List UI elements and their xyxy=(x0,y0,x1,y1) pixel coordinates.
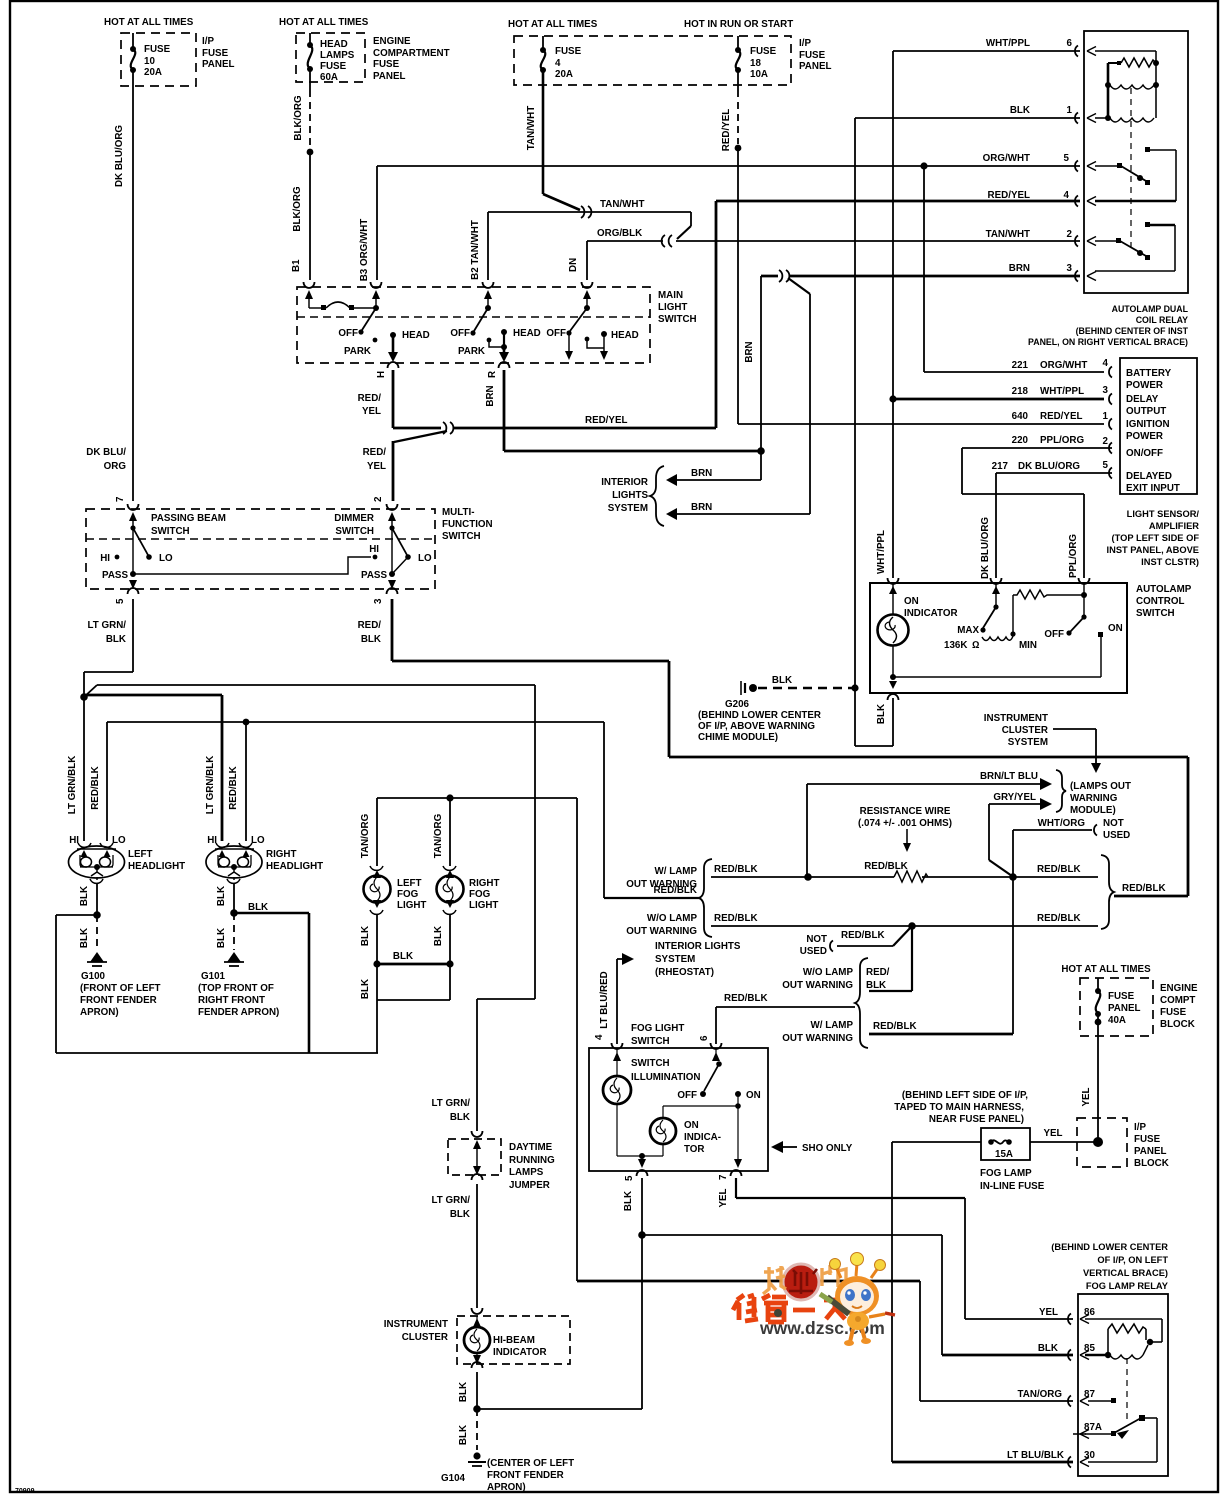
svg-text:7: 7 xyxy=(718,1174,729,1180)
svg-text:DK BLU/ORG: DK BLU/ORG xyxy=(114,125,125,187)
svg-text:LO: LO xyxy=(418,553,432,564)
svg-text:RESISTANCE WIRE: RESISTANCE WIRE xyxy=(860,806,951,817)
svg-text:LAMPS: LAMPS xyxy=(509,1167,544,1178)
wire BLK/ORG fuse60A to main light switch B1 xyxy=(292,69,313,280)
svg-text:AUTOLAMP: AUTOLAMP xyxy=(1136,584,1192,595)
wire YEL in-line fuse to block xyxy=(1030,1128,1098,1142)
fog switch ON circuit xyxy=(663,1094,742,1168)
svg-text:FUSE: FUSE xyxy=(799,50,826,61)
switch 1 PARK contact xyxy=(344,338,377,357)
svg-text:H: H xyxy=(376,371,387,378)
svg-text:4: 4 xyxy=(594,1034,605,1040)
svg-text:BLK: BLK xyxy=(79,886,90,906)
svg-text:DN: DN xyxy=(568,258,579,272)
svg-text:HI: HI xyxy=(100,553,110,564)
svg-text:HEAD: HEAD xyxy=(611,330,639,341)
svg-text:BLK: BLK xyxy=(248,902,268,913)
wire RED/YEL relay pin4 xyxy=(716,201,1080,428)
svg-text:10: 10 xyxy=(144,56,155,67)
svg-text:COMPARTMENT: COMPARTMENT xyxy=(373,48,450,59)
wire TAN/WHT horizontal to B2 and jog xyxy=(488,199,691,280)
wire BLK fog switch 5 to relay 85 xyxy=(623,1178,1073,1409)
svg-text:ON: ON xyxy=(1108,623,1123,634)
brace warning lines right xyxy=(1101,855,1166,929)
sensor pin 2 on/off xyxy=(1012,435,1163,459)
svg-text:10A: 10A xyxy=(750,69,768,80)
fuse box ENGINE COMPARTMENT FUSE PANEL xyxy=(279,17,450,82)
wire PPL/ORG sensor pin2 to autolamp switch xyxy=(962,448,1112,578)
svg-text:INDICATOR: INDICATOR xyxy=(493,1347,547,1358)
svg-text:INST CLSTR): INST CLSTR) xyxy=(1141,557,1199,567)
terminal cup WHT/PPL xyxy=(888,578,899,584)
svg-text:BRN: BRN xyxy=(691,468,712,479)
fuse 40A xyxy=(1095,978,1141,1036)
svg-text:W/O LAMP: W/O LAMP xyxy=(647,913,698,924)
svg-text:640: 640 xyxy=(1012,411,1029,422)
svg-text:BLK: BLK xyxy=(360,979,371,999)
outlined chars zhao / pian xyxy=(763,1263,846,1294)
wire BLK hibeam ground xyxy=(458,1409,477,1450)
svg-text:RED/YEL: RED/YEL xyxy=(988,190,1030,201)
wire RED/BLK low beam to headlights xyxy=(107,719,700,898)
svg-text:PASS: PASS xyxy=(361,570,387,581)
svg-text:OUT WARNING: OUT WARNING xyxy=(782,1033,853,1044)
svg-text:B3 ORG/WHT: B3 ORG/WHT xyxy=(359,219,370,282)
svg-text:RED/BLK: RED/BLK xyxy=(90,766,101,810)
svg-text:BLK: BLK xyxy=(393,951,413,962)
relay pin 4 connector xyxy=(1075,196,1096,207)
inline connector TAN/WHT xyxy=(581,206,591,218)
svg-text:FUSE: FUSE xyxy=(555,46,582,57)
svg-text:HOT AT ALL TIMES: HOT AT ALL TIMES xyxy=(1061,964,1151,975)
svg-text:HOT AT ALL TIMES: HOT AT ALL TIMES xyxy=(279,17,369,28)
relay pin 5 connector xyxy=(1075,161,1096,172)
svg-text:217: 217 xyxy=(992,461,1009,472)
svg-text:CLUSTER: CLUSTER xyxy=(1002,725,1048,736)
svg-text:PANEL: PANEL xyxy=(373,71,405,82)
instrument cluster system pointer xyxy=(984,713,1101,773)
resistance wire note xyxy=(858,806,952,852)
svg-text:HI: HI xyxy=(207,835,217,846)
svg-text:RED/: RED/ xyxy=(363,447,387,458)
wire RED/YEL fuse18 to light sensor pin1 xyxy=(721,70,1104,424)
relay pin 3 connector xyxy=(1075,271,1096,282)
svg-text:FUSE: FUSE xyxy=(1134,1134,1161,1145)
svg-text:G101: G101 xyxy=(201,971,226,982)
ground G101 xyxy=(198,952,279,1018)
sensor pin 3 delay output xyxy=(1012,385,1167,417)
svg-text:DAYTIME: DAYTIME xyxy=(509,1142,553,1153)
ground G104 xyxy=(441,1452,574,1493)
svg-text:220: 220 xyxy=(1012,435,1029,446)
svg-text:BLK: BLK xyxy=(1010,105,1030,116)
svg-text:G100: G100 xyxy=(81,971,106,982)
fuse HEAD LAMPS FUSE 60A xyxy=(307,33,355,83)
relay pin 1 connector xyxy=(1075,113,1096,124)
svg-text:COIL RELAY: COIL RELAY xyxy=(1136,315,1188,325)
terminal 3 bracket xyxy=(373,588,398,604)
svg-text:RED/: RED/ xyxy=(358,620,382,631)
terminal 7 xyxy=(115,496,139,574)
svg-text:OF I/P, ON LEFT: OF I/P, ON LEFT xyxy=(1097,1255,1168,1265)
passing beam lever xyxy=(100,525,173,564)
svg-text:POWER: POWER xyxy=(1126,380,1163,391)
svg-text:RED/BLK: RED/BLK xyxy=(724,993,768,1004)
svg-text:AUTOLAMP DUAL: AUTOLAMP DUAL xyxy=(1112,304,1189,314)
switch 1 HEAD contact to H xyxy=(388,330,430,362)
relay coil 1 xyxy=(1105,63,1159,118)
svg-text:FUSE: FUSE xyxy=(320,61,347,72)
wire RED/BLK w lamp branch xyxy=(869,1021,1013,1034)
sensor pin 5 delayed exit input xyxy=(992,460,1180,494)
right fog light lamp xyxy=(437,866,500,914)
labels near multifunction switch xyxy=(86,447,381,645)
svg-text:APRON): APRON) xyxy=(80,1007,119,1018)
wire in-line fuse to relay 30 xyxy=(892,1142,1073,1462)
svg-text:RED/BLK: RED/BLK xyxy=(714,913,758,924)
svg-text:BLK: BLK xyxy=(216,928,227,948)
jumper connector top bracket xyxy=(432,1098,483,1137)
wire BRN relay pin3 xyxy=(744,270,1080,514)
svg-text:BLK: BLK xyxy=(623,1191,634,1211)
svg-text:TOR: TOR xyxy=(684,1144,705,1155)
wire ORG/WHT B3 to relay pin5 xyxy=(377,162,1080,280)
daytime running lamps jumper box xyxy=(448,1139,555,1191)
svg-text:DIMMER: DIMMER xyxy=(334,513,374,524)
svg-text:BLOCK: BLOCK xyxy=(1134,1158,1169,1169)
svg-text:RUNNING: RUNNING xyxy=(509,1155,555,1166)
fog switch lever xyxy=(677,1048,760,1101)
svg-text:PANEL: PANEL xyxy=(202,59,234,70)
switch 2 PARK contact link xyxy=(458,338,504,357)
terminal 6 cup xyxy=(699,1035,722,1049)
svg-text:LIGHT SENSOR/: LIGHT SENSOR/ xyxy=(1127,509,1200,519)
terminal R bracket xyxy=(487,362,510,378)
switch 2 lever OFF xyxy=(450,305,491,339)
wire RED/BLK warning line 2 xyxy=(711,913,1098,930)
svg-text:WHT/PPL: WHT/PPL xyxy=(1040,386,1084,397)
svg-text:USED: USED xyxy=(800,946,827,957)
terminal cup PPL/ORG xyxy=(1079,578,1090,584)
svg-text:SWITCH: SWITCH xyxy=(631,1058,670,1069)
relay K1 autolamp dual coil relay box xyxy=(1028,31,1189,347)
svg-text:B1: B1 xyxy=(291,259,302,272)
svg-text:PPL/ORG: PPL/ORG xyxy=(1068,534,1079,578)
svg-text:60A: 60A xyxy=(320,72,338,83)
svg-text:RIGHT: RIGHT xyxy=(266,849,296,860)
svg-text:MIN: MIN xyxy=(1019,640,1037,651)
svg-text:OUT WARNING: OUT WARNING xyxy=(782,980,853,991)
svg-text:MAX: MAX xyxy=(957,625,979,636)
svg-text:18: 18 xyxy=(750,58,761,69)
svg-text:OFF: OFF xyxy=(1044,629,1064,640)
svg-text:TAN/WHT: TAN/WHT xyxy=(526,106,537,150)
hibeam indicator lamp xyxy=(464,1316,547,1364)
terminal B2 xyxy=(470,220,494,308)
svg-text:PARK: PARK xyxy=(344,346,371,357)
switch section 1 bridge xyxy=(309,302,379,311)
svg-text:RED/BLK: RED/BLK xyxy=(864,861,908,872)
svg-text:5: 5 xyxy=(624,1175,635,1181)
svg-text:SYSTEM: SYSTEM xyxy=(1008,737,1048,748)
svg-text:IGNITION: IGNITION xyxy=(1126,419,1170,430)
svg-text:FRONT FENDER: FRONT FENDER xyxy=(80,995,157,1006)
svg-text:RED/: RED/ xyxy=(866,967,890,978)
svg-text:20A: 20A xyxy=(144,67,162,78)
svg-text:ENGINE: ENGINE xyxy=(1160,983,1198,994)
svg-text:BLK: BLK xyxy=(360,926,371,946)
ground G206 xyxy=(698,675,855,743)
brace fog switch warning xyxy=(782,958,868,1048)
text lamps out warning module xyxy=(1070,781,1131,816)
wire LT GRN/BLK passing beam out xyxy=(80,599,133,841)
svg-text:1: 1 xyxy=(1067,105,1073,116)
svg-text:SHO ONLY: SHO ONLY xyxy=(802,1143,853,1154)
fog relay contacts xyxy=(1085,1398,1157,1462)
switch 1 lever OFF xyxy=(338,308,376,339)
svg-text:BLK: BLK xyxy=(433,926,444,946)
svg-text:YEL: YEL xyxy=(367,461,386,472)
svg-text:FOG: FOG xyxy=(397,889,419,900)
terminal 4 cup xyxy=(612,1043,623,1049)
terminal 5 bracket xyxy=(624,1170,648,1181)
svg-text:RED/BLK: RED/BLK xyxy=(841,930,885,941)
wire WHT/PPL relay pin6 down to autolamp switch xyxy=(876,51,1080,578)
svg-text:2: 2 xyxy=(1067,229,1073,240)
svg-text:LT GRN/: LT GRN/ xyxy=(432,1098,471,1109)
svg-text:W/ LAMP: W/ LAMP xyxy=(655,866,698,877)
svg-text:(LAMPS OUT: (LAMPS OUT xyxy=(1070,781,1131,792)
svg-text:SWITCH: SWITCH xyxy=(151,526,190,537)
autolamp control switch box xyxy=(870,583,1192,693)
relay resistor xyxy=(1117,58,1156,67)
svg-text:ILLUMINATION: ILLUMINATION xyxy=(631,1072,700,1083)
brace module inputs xyxy=(1056,770,1066,812)
fog switch bottom rail xyxy=(617,1153,663,1168)
svg-text:OUT WARNING: OUT WARNING xyxy=(626,926,697,937)
svg-text:DK BLU/ORG: DK BLU/ORG xyxy=(980,517,991,579)
svg-text:LO: LO xyxy=(112,835,126,846)
svg-text:APRON): APRON) xyxy=(487,1482,526,1493)
svg-text:PANEL: PANEL xyxy=(1108,1003,1140,1014)
svg-text:NOT: NOT xyxy=(1103,818,1124,829)
relay pin 85 xyxy=(1038,1343,1096,1361)
wire WHT/PPL 218 to sensor pin3 xyxy=(893,398,1104,401)
wire ORG/BLK to switch DN / TAN/WHT to relay pin2 xyxy=(587,228,1080,280)
svg-text:OFF: OFF xyxy=(338,328,358,339)
svg-text:ON: ON xyxy=(684,1120,699,1131)
switch 2 HEAD contact to R xyxy=(499,328,541,362)
svg-text:BLK/ORG: BLK/ORG xyxy=(292,186,303,232)
fuse box I/P FUSE PANEL (FUSE 4 / FUSE 18) xyxy=(508,19,831,85)
terminal 2 dimmer xyxy=(373,496,398,574)
relay pin 6 connector xyxy=(1075,46,1096,57)
red characters drawn as stroke blocks (wei ku yi xia) xyxy=(733,1295,846,1322)
svg-text:USED: USED xyxy=(1103,830,1130,841)
svg-text:VERTICAL BRACE): VERTICAL BRACE) xyxy=(1083,1268,1168,1278)
svg-text:Ω: Ω xyxy=(972,640,980,651)
svg-text:BLK: BLK xyxy=(1038,1343,1058,1354)
svg-text:ORG: ORG xyxy=(104,461,127,472)
svg-text:SWITCH: SWITCH xyxy=(335,526,374,537)
svg-text:LT GRN/: LT GRN/ xyxy=(432,1195,471,1206)
svg-text:TAN/WHT: TAN/WHT xyxy=(986,229,1030,240)
svg-text:DK BLU/: DK BLU/ xyxy=(86,447,126,458)
svg-text:FUSE: FUSE xyxy=(144,44,171,55)
svg-text:30: 30 xyxy=(1084,1450,1095,1461)
svg-text:BLK: BLK xyxy=(458,1425,469,1445)
svg-text:ENGINE: ENGINE xyxy=(373,36,411,47)
svg-text:DELAYED: DELAYED xyxy=(1126,471,1172,482)
svg-text:ORG/WHT: ORG/WHT xyxy=(1040,360,1087,371)
svg-text:ON/OFF: ON/OFF xyxy=(1126,448,1163,459)
terminal B1 xyxy=(291,259,315,308)
svg-text:DELAY: DELAY xyxy=(1126,394,1159,405)
svg-text:LO: LO xyxy=(159,553,173,564)
svg-text:RED/BLK: RED/BLK xyxy=(873,1021,917,1032)
svg-text:BLK: BLK xyxy=(361,634,381,645)
relay coil 2 xyxy=(1095,115,1154,122)
svg-text:RED/BLK: RED/BLK xyxy=(228,766,239,810)
svg-text:SWITCH: SWITCH xyxy=(631,1036,670,1047)
stamp xyxy=(783,1264,819,1300)
sensor pin 1 ignition power xyxy=(1012,411,1170,442)
wire YEL fog switch 7 to relay 86 xyxy=(718,1178,1073,1319)
note behind left side of I/P xyxy=(894,1090,1028,1125)
svg-text:FUSE: FUSE xyxy=(373,59,400,70)
svg-text:FUSE: FUSE xyxy=(202,48,229,59)
svg-text:HEAD: HEAD xyxy=(513,328,541,339)
svg-text:LAMPS: LAMPS xyxy=(320,50,355,61)
relay armature dashed link xyxy=(1130,88,1132,247)
relay pin wire labels xyxy=(983,38,1073,274)
svg-text:INTERIOR LIGHTS: INTERIOR LIGHTS xyxy=(655,941,741,952)
fog light switch box xyxy=(589,1023,768,1171)
svg-text:I/P: I/P xyxy=(1134,1122,1146,1133)
hibeam bottom bracket xyxy=(458,1362,642,1413)
wire BRN to interior lights arrow 1 xyxy=(666,451,761,486)
relay pin 2 connector xyxy=(1075,236,1096,247)
svg-text:WHT/PPL: WHT/PPL xyxy=(986,38,1030,49)
wire BLK relay pin1 down xyxy=(851,118,1080,746)
svg-text:W/O LAMP: W/O LAMP xyxy=(803,967,854,978)
svg-text:HOT IN RUN OR START: HOT IN RUN OR START xyxy=(684,19,793,30)
fuse F4 20A xyxy=(540,36,582,80)
svg-text:LIGHT: LIGHT xyxy=(397,900,426,911)
svg-text:218: 218 xyxy=(1012,386,1029,397)
svg-text:BLK: BLK xyxy=(216,886,227,906)
svg-text:PANEL, ON RIGHT VERTICAL BRACE: PANEL, ON RIGHT VERTICAL BRACE) xyxy=(1028,337,1188,347)
svg-text:FOG: FOG xyxy=(469,889,491,900)
svg-text:PASSING BEAM: PASSING BEAM xyxy=(151,513,226,524)
wire DK BLU/ORG sensor pin5 to autolamp switch xyxy=(980,473,1112,579)
svg-text:6: 6 xyxy=(1067,38,1073,49)
wire WHT/ORG not used xyxy=(1013,818,1130,1034)
svg-text:(BEHIND CENTER OF INST: (BEHIND CENTER OF INST xyxy=(1076,326,1189,336)
wire BLK right headlight ground xyxy=(216,884,309,1053)
ground G100 xyxy=(80,952,161,1018)
svg-text:7: 7 xyxy=(115,496,126,502)
svg-text:87A: 87A xyxy=(1084,1422,1102,1433)
svg-text:PANEL: PANEL xyxy=(799,61,831,72)
svg-text:CHIME MODULE): CHIME MODULE) xyxy=(698,732,778,743)
wire LT GRN/BLK high beam to hibeam indicator xyxy=(84,685,535,1131)
svg-text:INSTRUMENT: INSTRUMENT xyxy=(384,1319,448,1330)
svg-text:LT BLU/BLK: LT BLU/BLK xyxy=(1007,1450,1064,1461)
svg-text:LIGHTS: LIGHTS xyxy=(612,490,648,501)
svg-text:221: 221 xyxy=(1012,360,1029,371)
fuse box I/P FUSE PANEL (FUSE 10 20A) xyxy=(104,17,234,86)
svg-text:SYSTEM: SYSTEM xyxy=(608,503,648,514)
svg-text:BLK: BLK xyxy=(876,704,887,724)
svg-text:(CENTER OF LEFT: (CENTER OF LEFT xyxy=(487,1458,574,1469)
wire TAN/ORG fog rail to relay 87 xyxy=(577,798,1073,1401)
svg-text:HOT AT ALL TIMES: HOT AT ALL TIMES xyxy=(104,17,194,28)
svg-text:LEFT: LEFT xyxy=(397,878,422,889)
fog lamp in-line fuse 15A xyxy=(980,1128,1045,1192)
wire RED/YEL from H to dimmer and relay xyxy=(358,370,716,501)
svg-text:R: R xyxy=(487,371,498,378)
svg-text:OFF: OFF xyxy=(450,328,470,339)
svg-text:LEFT: LEFT xyxy=(128,849,153,860)
multifunction switch box xyxy=(86,507,493,589)
mascot xyxy=(836,1267,841,1278)
svg-text:BLK: BLK xyxy=(79,928,90,948)
svg-text:HI: HI xyxy=(369,544,379,555)
svg-text:4: 4 xyxy=(1064,190,1070,201)
svg-text:SYSTEM: SYSTEM xyxy=(655,954,695,965)
svg-text:FUSE: FUSE xyxy=(1108,991,1135,1002)
svg-text:PANEL: PANEL xyxy=(1134,1146,1166,1157)
relay pin 87A xyxy=(1073,1422,1102,1439)
svg-text:LIGHT: LIGHT xyxy=(658,302,687,313)
svg-text:NOT: NOT xyxy=(806,934,827,945)
svg-text:15A: 15A xyxy=(995,1149,1013,1160)
svg-text:GRY/YEL: GRY/YEL xyxy=(993,792,1036,803)
svg-text:40A: 40A xyxy=(1108,1015,1126,1026)
wire BRN to interior lights arrow 2 xyxy=(666,502,810,520)
instrument cluster hibeam box xyxy=(384,1308,570,1364)
relay switch 1 (pin5-pin4) xyxy=(1095,147,1176,201)
fuse F18 10A xyxy=(735,36,777,80)
svg-text:TAN/ORG: TAN/ORG xyxy=(1018,1389,1063,1400)
wire BLK fog lights ground rail xyxy=(360,915,454,1053)
svg-text:EXIT INPUT: EXIT INPUT xyxy=(1126,483,1180,494)
svg-text:I/P: I/P xyxy=(799,38,811,49)
svg-text:RED/BLK: RED/BLK xyxy=(1037,864,1081,875)
wire DK BLU/ORG fuse10 to passing beam switch xyxy=(114,70,133,501)
wire PASS to dimmer HI xyxy=(133,557,371,574)
svg-text:RIGHT FRONT: RIGHT FRONT xyxy=(198,995,265,1006)
svg-text:ON: ON xyxy=(746,1090,761,1101)
svg-text:LO: LO xyxy=(251,835,265,846)
relay internal: pin6 lead to resistor xyxy=(1095,51,1159,66)
svg-text:5: 5 xyxy=(1064,153,1070,164)
svg-text:RED/BLK: RED/BLK xyxy=(1037,913,1081,924)
svg-text:MAIN: MAIN xyxy=(658,290,683,301)
svg-text:BLK: BLK xyxy=(772,675,792,686)
main light switch box xyxy=(297,287,697,363)
wire LT GRN/BLK to right headlight HI xyxy=(84,695,222,841)
svg-text:CLUSTER: CLUSTER xyxy=(402,1332,448,1343)
switch 3 contact link xyxy=(585,330,639,360)
svg-text:AMPLIFIER: AMPLIFIER xyxy=(1149,521,1199,531)
svg-text:INST PANEL, ABOVE: INST PANEL, ABOVE xyxy=(1107,545,1199,555)
svg-text:INDICATOR: INDICATOR xyxy=(904,608,958,619)
svg-text:TAN/WHT: TAN/WHT xyxy=(600,199,644,210)
switch 3 lever OFF xyxy=(546,305,590,360)
svg-text:ON: ON xyxy=(904,596,919,607)
